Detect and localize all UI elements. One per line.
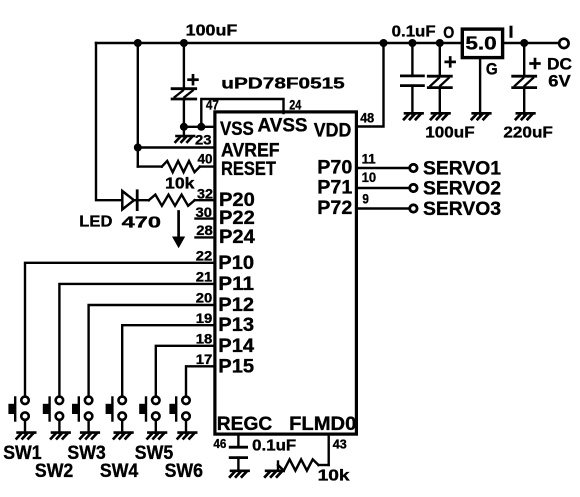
svg-text:48: 48 [360,109,374,125]
svg-text:6V: 6V [548,73,570,91]
pin label P15 [218,356,254,377]
node junction on rail at VDD branch [380,39,388,47]
svg-text:17: 17 [196,351,213,367]
node junction AVREF branch [134,144,142,152]
svg-text:100uF: 100uF [186,23,238,40]
wire top rail (regulator output to DC terminal) [503,42,559,45]
node junction on rail at C 100uF [180,39,188,47]
label I (regulator input) [510,27,513,36]
ground under R3 [265,471,284,477]
svg-text:LED: LED [79,214,112,231]
pin label RESET [221,159,276,180]
pin label P11 [218,274,254,295]
svg-text:P10: P10 [218,253,254,274]
pin number 43 (FLMD0) [333,436,347,451]
pin label P70 [317,157,352,178]
ground under SW2 [51,420,70,439]
svg-text:10k: 10k [318,468,350,485]
svg-text:46: 46 [213,436,226,451]
svg-text:O: O [443,24,454,42]
pin number 10 (P71) [362,169,377,185]
label 0.1uF of C3 [392,23,436,40]
pin number 11 (P70) [362,150,376,166]
pin label AVSS [258,116,308,137]
svg-text:VSS: VSS [220,119,254,140]
svg-text:G: G [486,61,498,79]
label LED [79,214,112,231]
terminal circle SERVO3 [410,205,417,212]
pin number 48 (VDD) [360,109,374,125]
node junction on rail at 0.1uF [408,39,416,47]
pin number 30 (P22) [196,204,213,220]
svg-text:P12: P12 [218,295,254,316]
label O (regulator output) [443,24,454,42]
polarity + of C4 [446,58,455,67]
pin label VDD [314,120,352,141]
label SW2 [35,461,73,482]
node junction VSS / AVSS link [197,123,205,131]
resistor R1 10k (RESET pull-up) [138,161,215,172]
svg-text:28: 28 [196,222,213,238]
label 100uF (top-left capacitor) [186,23,238,40]
label SW1 [3,443,42,464]
label SW5 [135,443,174,464]
node junction on rail at AVREF branch [134,39,142,47]
arrow pointing down (LED indicator) [172,212,185,249]
pin number 17 (P15) [196,351,213,367]
wire P71 to SERVO2 [356,187,408,189]
pin label P13 [218,315,254,336]
svg-text:30: 30 [196,204,213,220]
svg-text:10k: 10k [165,176,195,193]
pin number 24 (AVSS) [289,96,301,112]
terminal circle SERVO2 [410,184,417,191]
op-amp U1 uPD78F0515 IC body [215,112,357,434]
pin label P72 [317,198,352,219]
svg-text:P11: P11 [218,274,254,295]
pin label P12 [218,295,254,316]
ground under SW1 [17,420,36,439]
svg-text:SERVO2: SERVO2 [423,178,501,199]
pin label P22 [219,208,255,229]
svg-text:19: 19 [196,310,213,326]
svg-text:SERVO1: SERVO1 [423,158,501,179]
wire AVREF pin 23 [138,146,215,148]
ground under C2 [230,471,249,477]
pin label REGC [217,414,273,435]
pin number 18 (P14) [196,331,213,347]
pin number 9 (P72) [362,191,369,207]
polarity + of C5 [531,59,540,68]
label 10k of R3 [318,468,350,485]
pin label VSS [220,119,254,140]
label 0.1uF of C2 [252,438,296,455]
svg-text:100uF: 100uF [425,124,475,141]
pin number 28 (P24) [196,222,213,238]
wire P10 to SW1 [25,263,215,397]
switch SW6 pushbutton [169,397,189,421]
label 100uF of C4 [425,124,475,141]
pin number 22 (P10) [196,248,213,264]
svg-text:REGC: REGC [217,414,273,435]
svg-text:43: 43 [333,436,347,451]
pin number 21 (P11) [196,269,213,285]
label SERVO1 [423,158,501,179]
svg-text:220uF: 220uF [503,124,553,141]
pin number 47 (VSS) [206,96,219,112]
capacitor C1 100uF top-left (polarized) [172,43,196,127]
ground under C3 [404,113,423,119]
wire VSS to AVSS pin 24 link [201,99,283,127]
svg-text:47: 47 [206,96,219,112]
pin stub P22 [196,217,215,219]
label uPD78F0515 (IC title) [221,75,345,92]
pin label AVREF [221,140,280,161]
svg-text:20: 20 [196,290,213,306]
node junction C1 bottom / ground [180,123,188,131]
pin number 46 (REGC) [213,436,226,451]
capacitor C2 0.1uF on REGC pin 46 [230,434,246,471]
svg-text:SW4: SW4 [100,461,139,482]
svg-text:P71: P71 [317,177,352,198]
label G (regulator ground) [486,61,498,79]
pin label FLMD0 [289,414,356,435]
svg-text:22: 22 [196,248,213,264]
svg-text:DC: DC [547,55,572,73]
pin label P24 [219,227,255,248]
label 5.0 inside regulator [465,34,496,54]
pin number 19 (P13) [196,310,213,326]
ground under SW4 [114,420,133,439]
pin label P71 [317,177,352,198]
pin label P10 [218,253,254,274]
label 220uF of C5 [503,124,553,141]
switch SW1 pushbutton [8,397,28,421]
svg-text:P70: P70 [317,157,352,178]
svg-text:5.0: 5.0 [465,34,496,54]
svg-text:P72: P72 [317,198,352,219]
pin label P14 [218,336,254,357]
wire P15 to SW6 [186,366,215,397]
wire P14 to SW5 [156,346,215,397]
voltage regulator U2 5.0 box [462,29,502,57]
svg-text:uPD78F0515: uPD78F0515 [221,75,345,92]
terminal circle DC input [559,39,568,48]
wire AVREF/RESET branch vertical [137,43,139,167]
ground under C5 [516,113,535,119]
pin stub P24 [196,236,215,238]
capacitor C4 100uF (regulator output, polarized) [428,43,451,114]
ground under SW3 [80,420,99,439]
svg-text:18: 18 [196,331,213,347]
wire P72 to SERVO3 [356,207,408,209]
label SW3 [67,443,105,464]
svg-text:11: 11 [362,150,376,166]
wire P13 to SW4 [122,325,215,397]
switch SW4 pushbutton [106,397,126,421]
svg-text:470: 470 [122,214,161,231]
label 6V [548,73,570,91]
wire P11 to SW2 [59,284,215,397]
capacitor C3 0.1uF (top) [401,43,423,114]
ground under SW5 [147,420,166,439]
svg-text:SERVO3: SERVO3 [423,199,501,220]
switch SW2 pushbutton [43,397,63,421]
label 10k of R1 [165,176,195,193]
capacitor C5 220uF (input, polarized) [513,43,536,114]
svg-text:P14: P14 [218,336,254,357]
ground under C4 [431,113,450,119]
wire top VCC rail (left segment) [96,42,462,45]
svg-text:40: 40 [198,151,213,167]
label SERVO3 [423,199,501,220]
ground under regulator G [472,113,491,119]
pin number 32 (P20) [197,185,213,201]
ground under C1 [176,127,195,142]
LED D1 (triangle + cathode bar) [122,191,149,210]
switch SW5 pushbutton [139,397,159,421]
label SW6 [165,461,203,482]
svg-text:RESET: RESET [221,159,276,180]
svg-text:P22: P22 [219,208,255,229]
svg-text:0.1uF: 0.1uF [392,23,436,40]
wire P70 to SERVO1 [356,167,408,169]
label SERVO2 [423,178,501,199]
polarity + of C1 [189,75,198,84]
svg-text:9: 9 [362,191,369,207]
svg-text:P15: P15 [218,356,254,377]
pin number 20 (P12) [196,290,213,306]
wire left rail down to LED row [96,43,122,200]
svg-text:24: 24 [289,96,301,112]
pin label P20 [219,190,255,211]
ground under SW6 [178,420,197,439]
svg-text:21: 21 [196,269,213,285]
pin number 40 (RESET) [198,151,213,167]
svg-text:0.1uF: 0.1uF [252,438,296,455]
svg-text:P24: P24 [219,227,255,248]
label 470 of R2 [122,214,161,231]
resistor R3 10k on FLMD0 pin 43 [278,434,329,471]
svg-text:P13: P13 [218,315,254,336]
svg-text:SW6: SW6 [165,461,203,482]
svg-text:FLMD0: FLMD0 [289,414,356,435]
wire P12 to SW3 [89,305,215,397]
node junction on rail at 220uF [520,39,528,47]
resistor R2 470 (LED series) [149,195,215,206]
svg-text:23: 23 [195,132,212,148]
svg-text:32: 32 [197,185,213,201]
svg-text:10: 10 [362,169,377,185]
svg-text:AVSS: AVSS [258,116,308,137]
wire VDD pin 48 to rail [356,43,383,127]
pin number 23 (AVREF) [195,132,212,148]
label SW4 [100,461,139,482]
switch SW3 pushbutton [72,397,92,421]
label DC [547,55,572,73]
wire C1 junction to VSS pin [184,126,215,128]
node junction on rail at 100uF [436,39,444,47]
terminal circle SERVO1 [410,164,417,171]
svg-text:SW2: SW2 [35,461,73,482]
wire regulator G pin to ground [479,58,481,115]
svg-text:VDD: VDD [314,120,352,141]
